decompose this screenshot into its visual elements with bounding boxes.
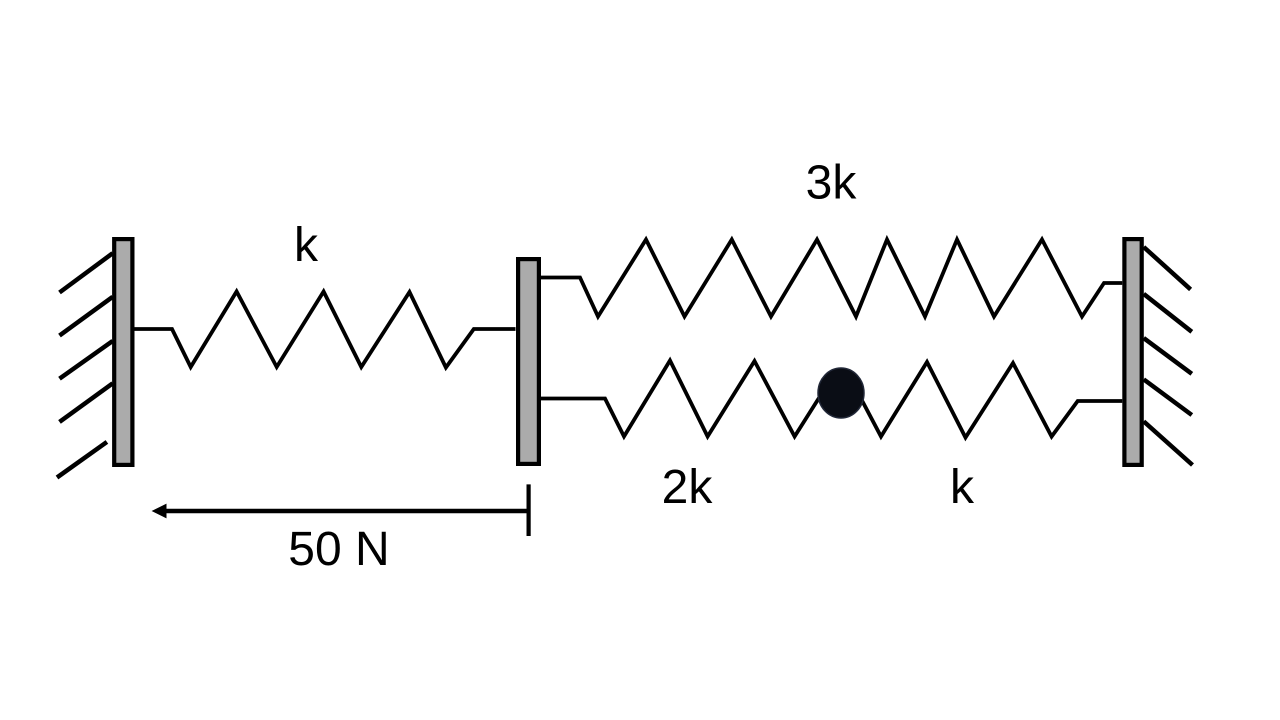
- svg-text:k: k: [950, 461, 975, 514]
- svg-text:3k: 3k: [806, 157, 858, 210]
- svg-text:k: k: [294, 219, 319, 272]
- svg-text:50 N: 50 N: [288, 523, 389, 576]
- svg-text:2k: 2k: [662, 461, 714, 514]
